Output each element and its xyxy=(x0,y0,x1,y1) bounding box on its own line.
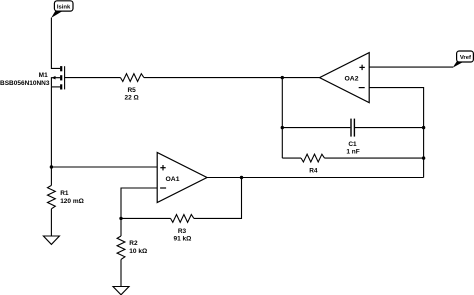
svg-text:R3: R3 xyxy=(178,228,187,235)
wire node to OA1 + input xyxy=(51,166,157,168)
node C1 right xyxy=(422,126,425,129)
svg-text:R1: R1 xyxy=(60,190,69,197)
wire OA1 - input xyxy=(121,188,157,218)
svg-text:R2: R2 xyxy=(129,240,138,247)
wire drain to Isink xyxy=(51,18,60,69)
resistor R2 10kohm xyxy=(117,218,147,286)
svg-text:Isink: Isink xyxy=(57,4,71,10)
wire right rail xyxy=(369,88,423,178)
svg-text:R5: R5 xyxy=(127,87,136,94)
node OA1 output xyxy=(240,176,243,179)
ground below R2 xyxy=(113,287,129,295)
wire gate to R5 xyxy=(65,77,121,79)
resistor R4 xyxy=(282,154,423,174)
svg-text:C1: C1 xyxy=(348,141,357,148)
op-amp OA2 (pointing left) xyxy=(320,53,370,103)
wire OA1 output xyxy=(207,177,424,179)
wire left rail down xyxy=(281,78,283,159)
transistor M1 (NMOS, gate on right) xyxy=(0,66,65,89)
resistor R3 91kohm xyxy=(121,215,194,243)
svg-text:OA1: OA1 xyxy=(166,176,180,183)
ground below R1 xyxy=(43,236,59,244)
node R4 right xyxy=(422,156,425,159)
svg-text:BSB056N10NN3: BSB056N10NN3 xyxy=(0,80,50,87)
resistor R1 120mohm xyxy=(48,185,84,208)
capacitor C1 1nF xyxy=(282,119,423,156)
node junction gate/feedback xyxy=(281,76,284,79)
node R2/R3 xyxy=(119,217,122,220)
svg-text:Vref: Vref xyxy=(460,55,471,61)
svg-text:R4: R4 xyxy=(309,167,318,174)
wire OA2 + input to Vref xyxy=(369,66,453,68)
node R1 / OA1+ xyxy=(50,165,53,168)
node C1 left xyxy=(281,126,284,129)
resistor R5 22ohm xyxy=(121,74,144,102)
svg-text:120 mΩ: 120 mΩ xyxy=(60,198,84,205)
svg-text:M1: M1 xyxy=(39,72,48,79)
svg-text:91 kΩ: 91 kΩ xyxy=(173,236,191,243)
net flag Vref xyxy=(453,51,474,68)
wire source down to R1 node xyxy=(50,87,52,185)
svg-text:22 Ω: 22 Ω xyxy=(124,94,138,101)
svg-text:10 kΩ: 10 kΩ xyxy=(129,248,147,255)
svg-text:OA2: OA2 xyxy=(345,75,359,82)
wire R3 up to OA1 output xyxy=(194,178,242,219)
net flag Isink xyxy=(51,1,73,18)
svg-text:1 nF: 1 nF xyxy=(346,148,359,155)
wire R5 to OA2 output xyxy=(144,77,320,79)
op-amp OA1 xyxy=(157,153,207,203)
wire R1 to ground xyxy=(50,209,52,236)
